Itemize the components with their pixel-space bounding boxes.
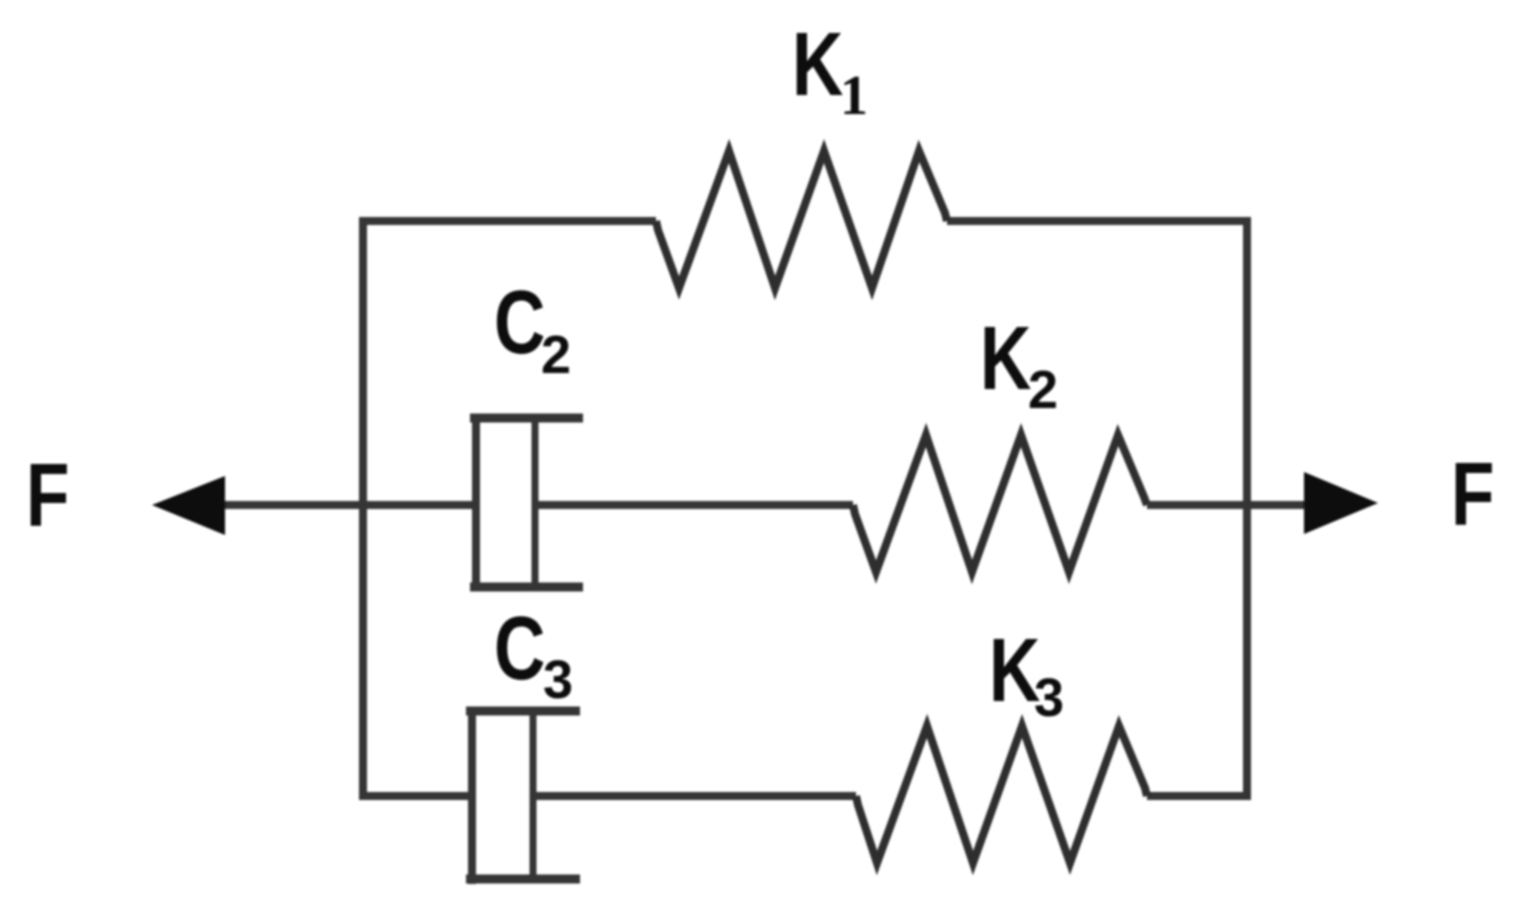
svg-text:3: 3 [1034,668,1064,728]
svg-text:3: 3 [543,650,573,710]
wire right force shaft [1147,501,1312,509]
force arrow left head [152,476,225,535]
svg-text:2: 2 [1028,360,1058,420]
svg-text:F: F [1451,445,1494,545]
svg-text:F: F [26,446,69,546]
damper C3 piston [533,715,856,877]
force arrow right head [1304,472,1378,534]
svg-text:C: C [494,599,545,699]
wire left force shaft [213,501,473,509]
damper C2 cylinder [470,414,583,591]
spring K1 [656,151,947,288]
damper C3 cylinder [466,707,580,884]
wire top-left + left bus + wire bottom-left [363,221,656,796]
svg-text:K: K [980,309,1031,409]
wire top-right + right bus + wire bottom-right [947,221,1247,796]
spring K2 [853,435,1147,572]
spring K3 [856,726,1147,863]
svg-text:K: K [792,15,843,115]
damper C2 piston [535,418,853,586]
svg-text:K: K [989,621,1040,721]
svg-text:2: 2 [541,325,571,385]
svg-text:1: 1 [840,65,868,127]
svg-text:C: C [494,273,545,373]
